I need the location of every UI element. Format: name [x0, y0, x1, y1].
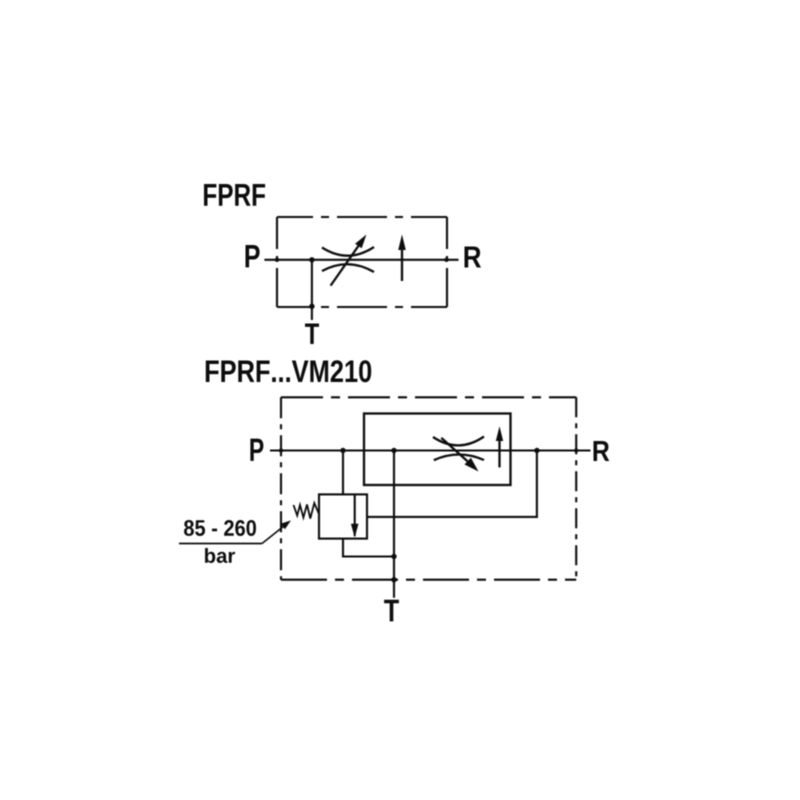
wire relief outlet to T — [343, 539, 394, 557]
junction outlet-T — [391, 554, 396, 559]
port label P (bottom) — [250, 439, 263, 461]
label underline — [179, 543, 262, 545]
setting label 85 - 260 — [184, 520, 256, 536]
port label T (top) — [305, 324, 319, 345]
port label T (bottom) — [384, 600, 399, 622]
port label P (top) — [246, 245, 260, 267]
wire T (bottom) — [393, 451, 395, 598]
junction T at bottom border (top) — [309, 304, 314, 309]
junction T at bottom border — [391, 577, 396, 582]
setting label bar — [205, 548, 235, 563]
title FPRF...VM210 — [206, 360, 371, 382]
flow arrow (top) — [398, 235, 406, 282]
flow arrow (bottom) — [496, 426, 503, 467]
wire P-R (bottom) — [270, 449, 591, 451]
wire P down to relief valve — [342, 451, 344, 495]
wire P-R (top) — [264, 259, 458, 261]
junction P branch to relief valve — [340, 448, 345, 453]
port dot right border (top) — [444, 258, 448, 262]
restrictor adjustment arrow (bottom) — [441, 438, 478, 472]
junction T branch (bottom) — [391, 448, 396, 453]
port dot left border (bottom) — [279, 448, 283, 452]
title FPRF — [204, 184, 265, 206]
port label R (bottom) — [594, 441, 610, 461]
metering block (inner solid box) — [364, 414, 511, 486]
variable restrictor arcs (bottom) — [433, 437, 484, 461]
junction pilot branch — [534, 448, 539, 453]
restrictor adjustment arrow (top) — [331, 235, 367, 286]
enclosure bottom valve body (dash-dot boundary) — [281, 397, 576, 579]
enclosure top valve body (dash-dot boundary) — [277, 217, 447, 307]
port label R (top) — [465, 247, 482, 268]
relief valve spring — [294, 503, 320, 519]
junction T branch (top) — [309, 257, 314, 262]
label leader arrow — [262, 520, 291, 543]
wire pilot line — [367, 451, 537, 517]
wire T branch (top) — [311, 260, 313, 320]
port dot left border (top) — [275, 258, 279, 262]
relief valve body — [319, 494, 367, 538]
port dot right border (bottom) — [574, 448, 578, 452]
variable restrictor arcs (top) — [322, 247, 374, 272]
relief valve flow arrow — [351, 494, 359, 537]
